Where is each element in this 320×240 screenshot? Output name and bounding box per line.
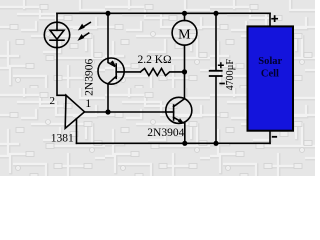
junction node capacitor-bottom rail	[213, 141, 218, 146]
2N3904 base lead inside	[166, 111, 174, 113]
LED cathode bar	[50, 39, 64, 41]
2N3904 base bar	[173, 105, 175, 120]
label capacitor minus	[220, 83, 224, 85]
label capacitor plus	[219, 63, 224, 68]
2N3906 emitter arrowhead	[110, 60, 116, 67]
capacitor C1 top plate	[210, 70, 222, 72]
LED D1 photodiode circle	[44, 22, 69, 47]
transistor Q1 2N3906 circle	[98, 58, 124, 84]
2N3906 emitter lead inside	[108, 58, 115, 66]
wire inside LED bottom	[56, 40, 58, 47]
junction node rail-2N3906	[105, 11, 110, 16]
capacitor C1 bottom plate	[210, 75, 222, 77]
2N3904 emitter lead inside	[174, 117, 182, 122]
2N3904 collector lead inside	[174, 99, 185, 107]
junction node rail-capacitor	[213, 11, 218, 16]
wire inside LED top	[56, 22, 58, 30]
svg-text:Cell: Cell	[261, 68, 279, 79]
light arrow shaft lower	[80, 33, 89, 39]
wire 1381 output to 2N3904 base	[85, 111, 166, 113]
svg-text:2N3906: 2N3906	[84, 59, 96, 96]
wire motor drop from rail	[184, 13, 186, 20]
wire motor to junction	[184, 45, 186, 72]
svg-text:1381: 1381	[51, 133, 74, 145]
background wallpaper	[0, 0, 315, 176]
wire solar cell positive drop	[269, 13, 271, 26]
light arrow head lower	[77, 34, 84, 41]
wire rail to 2N3906 emitter	[107, 13, 109, 58]
wire capacitor drop from rail	[215, 13, 217, 70]
wire solar cell negative drop	[269, 131, 271, 144]
LED internals: anode triangle	[50, 30, 64, 39]
wire junction to 2N3904 collector	[184, 72, 186, 99]
wire top rail	[57, 12, 270, 14]
junction node rail-motor	[182, 11, 187, 16]
wire 2N3904 emitter to bottom rail	[184, 123, 186, 143]
wire 1381 pin3 to ground rail	[76, 119, 78, 144]
light arrow head upper	[78, 24, 85, 31]
svg-text:4700µF: 4700µF	[225, 59, 236, 91]
1381 voltage detector triangle	[65, 95, 84, 128]
motor M1 circle	[172, 20, 197, 45]
wire bottom rail	[77, 142, 271, 144]
junction node resistor-motor-collector	[182, 69, 187, 74]
svg-text:2N3904: 2N3904	[147, 127, 184, 139]
wire LED to 1381 input	[57, 48, 66, 96]
label solar plus	[272, 16, 277, 21]
2N3904 emitter arrowhead	[178, 118, 185, 124]
resistor R1 2.2K zigzag	[140, 69, 184, 76]
2N3906 collector lead inside	[108, 76, 116, 84]
svg-text:M: M	[178, 27, 191, 42]
svg-text:Solar: Solar	[258, 56, 282, 67]
wire capacitor to bottom rail	[215, 77, 217, 144]
junction node 1381 output	[105, 109, 110, 114]
svg-text:1: 1	[85, 96, 91, 110]
wire LED drop from rail	[56, 13, 58, 22]
label solar minus	[273, 136, 277, 138]
svg-text:2.2 KΩ: 2.2 KΩ	[137, 54, 171, 66]
2N3906 base bar	[115, 64, 117, 78]
light arrow shaft upper	[81, 23, 91, 29]
2N3906 base wire to resistor	[116, 71, 140, 73]
junction node emitter-bottom rail	[182, 141, 187, 146]
svg-text:2: 2	[50, 95, 56, 107]
solar cell body	[248, 26, 294, 130]
transistor Q2 2N3904 circle	[166, 97, 192, 123]
wire 2N3906 collector drop	[107, 84, 109, 112]
